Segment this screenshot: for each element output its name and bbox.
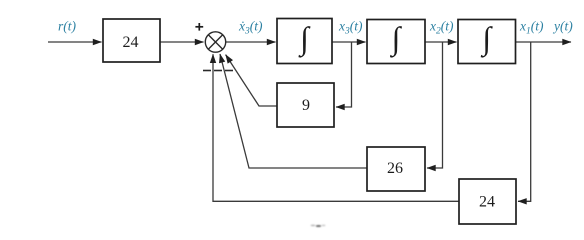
svg-text:x1(t): x1(t) [519,19,544,37]
svg-text:x3(t): x3(t) [338,19,363,37]
svg-text:y(t): y(t) [552,19,573,34]
svg-text:9: 9 [302,97,310,114]
svg-text:24: 24 [123,34,139,51]
svg-text:26: 26 [387,160,403,177]
svg-text:24: 24 [479,194,495,211]
svg-text:r(t): r(t) [58,19,77,34]
svg-text:ẋ3(t): ẋ3(t) [238,19,263,37]
svg-text:x2(t): x2(t) [429,19,454,37]
